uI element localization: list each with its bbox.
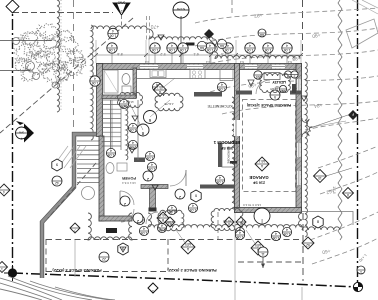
driveway parallelogram NE bbox=[346, 19, 378, 48]
dark block east inner bbox=[292, 84, 296, 93]
leader lines interior bbox=[150, 100, 170, 117]
topo contours SE bbox=[310, 212, 378, 240]
setback dashed east upper bbox=[302, 0, 304, 56]
svg-text:A5.1: A5.1 bbox=[258, 159, 265, 163]
hexagons bbox=[191, 190, 201, 202]
svg-text:1.06: 1.06 bbox=[247, 48, 254, 52]
diamond 7 stair bbox=[70, 223, 80, 233]
svg-text:1.05: 1.05 bbox=[147, 156, 154, 160]
diamond west edge low bbox=[0, 262, 8, 273]
dashed sight line NW bbox=[0, 18, 133, 133]
west wall bbox=[97, 64, 103, 137]
garage south wall bbox=[235, 208, 302, 213]
section pennant 2 bbox=[113, 3, 130, 15]
parking dashed divider west bbox=[45, 239, 47, 272]
property line south bbox=[12, 273, 358, 287]
diamond 10 bbox=[314, 170, 327, 183]
svg-text:1.06: 1.06 bbox=[109, 48, 116, 52]
parking dashed divider 1 bbox=[167, 239, 169, 270]
revision cloud stair strip bbox=[126, 105, 128, 160]
window tags row bbox=[107, 43, 117, 53]
door arc bedroom bbox=[170, 170, 186, 186]
circle 2 markers bbox=[120, 196, 130, 207]
svg-text:1.06: 1.06 bbox=[207, 48, 214, 52]
bath wall horizontal bbox=[102, 95, 136, 99]
pennant stem bbox=[121, 15, 123, 28]
svg-text:4: 4 bbox=[171, 43, 173, 47]
svg-text:1.05: 1.05 bbox=[219, 87, 226, 91]
svg-text:B: B bbox=[162, 218, 164, 222]
svg-text:4: 4 bbox=[94, 76, 96, 80]
svg-text:FOYER: FOYER bbox=[122, 176, 136, 181]
svg-text:5'-2: 5'-2 bbox=[160, 52, 165, 56]
svg-text:+70: +70 bbox=[151, 23, 160, 29]
property line east bbox=[357, 0, 359, 287]
svg-text:4: 4 bbox=[221, 82, 223, 86]
svg-text:1: 1 bbox=[152, 289, 154, 293]
svg-text:1.06: 1.06 bbox=[180, 48, 187, 52]
svg-text:KITCHENETTE: KITCHENETTE bbox=[207, 104, 233, 108]
svg-text:GARAGE: GARAGE bbox=[249, 175, 268, 180]
svg-text:4: 4 bbox=[275, 231, 277, 235]
svg-text:4: 4 bbox=[3, 190, 5, 194]
ramp hatch bbox=[52, 146, 68, 168]
svg-text:6'-1: 6'-1 bbox=[193, 52, 198, 56]
svg-text:4: 4 bbox=[171, 205, 173, 209]
circle 42 bbox=[52, 176, 62, 186]
retaining wall bbox=[42, 134, 96, 278]
svg-text:62: 62 bbox=[306, 243, 310, 247]
fridge bbox=[220, 70, 233, 81]
dashed vertical x73 bbox=[73, 0, 75, 128]
west wall lower bbox=[99, 136, 104, 221]
road edges SW bbox=[0, 278, 62, 300]
svg-text:216 SF: 216 SF bbox=[252, 181, 265, 185]
svg-text:4: 4 bbox=[112, 29, 114, 33]
window openings north bbox=[140, 65, 158, 69]
svg-text:4: 4 bbox=[286, 43, 288, 47]
stair markers bbox=[132, 116, 138, 121]
svg-text:I: I bbox=[261, 217, 262, 223]
svg-text:5/-PW: 5/-PW bbox=[177, 7, 186, 11]
svg-text:10: 10 bbox=[318, 176, 322, 180]
svg-text:4: 4 bbox=[149, 151, 151, 155]
diamond NW corner bbox=[6, 0, 19, 13]
fence line east bbox=[338, 0, 342, 240]
revision cloud north band bbox=[91, 26, 300, 59]
interior stair bbox=[102, 99, 122, 101]
svg-text:1.06: 1.06 bbox=[169, 48, 176, 52]
svg-text:4: 4 bbox=[286, 227, 288, 231]
diamonds 6 bbox=[224, 217, 234, 227]
revision cloud east wall bbox=[305, 62, 307, 237]
svg-text:1.05: 1.05 bbox=[130, 128, 137, 132]
svg-text:4: 4 bbox=[249, 43, 251, 47]
svg-text:A5.1: A5.1 bbox=[184, 242, 191, 246]
svg-text:8-4: 8-4 bbox=[288, 60, 292, 64]
svg-text:8A: 8A bbox=[219, 44, 224, 48]
shrubs bbox=[26, 62, 35, 71]
bath SW fixtures bbox=[82, 187, 95, 200]
foyer T wall stem bbox=[150, 188, 156, 211]
corner diagonals NE bbox=[352, 0, 378, 14]
tag 1.06 west bbox=[90, 76, 100, 86]
revision cloud south band bbox=[148, 213, 302, 227]
svg-text:4: 4 bbox=[227, 43, 229, 47]
svg-text:A5.1: A5.1 bbox=[156, 85, 163, 89]
black bar north band bbox=[186, 43, 195, 46]
driveway edge lines bbox=[74, 240, 76, 277]
revision cloud west wall bbox=[91, 25, 93, 140]
patio dark pad bbox=[106, 228, 117, 233]
interior fixture cloud c bbox=[260, 73, 291, 92]
bath south wall bbox=[99, 216, 132, 221]
svg-text:1: 1 bbox=[1, 267, 3, 271]
svg-text:4: 4 bbox=[143, 226, 145, 230]
dotted line beside cloud bbox=[60, 0, 62, 112]
tag circle 5 garage bbox=[270, 90, 280, 100]
interior fixture cloud a bbox=[118, 93, 143, 108]
bath fixtures NW bbox=[104, 70, 118, 93]
door opening garage west bbox=[234, 120, 240, 136]
svg-text:4: 4 bbox=[182, 43, 184, 47]
revision cloud bump east bbox=[302, 118, 313, 137]
black diamond keynote 1 bbox=[148, 283, 158, 293]
dim line top bbox=[96, 54, 302, 56]
section marker west bbox=[16, 121, 35, 143]
svg-text:1.05: 1.05 bbox=[217, 180, 224, 184]
revision cloud SE extension bbox=[302, 227, 340, 230]
topo contours NE bbox=[195, 8, 378, 23]
svg-text:11: 11 bbox=[261, 252, 265, 256]
svg-text:16.8 X 70 4.0: 16.8 X 70 4.0 bbox=[243, 203, 261, 207]
diamond 8 bbox=[343, 188, 354, 199]
svg-text:A5.1: A5.1 bbox=[159, 213, 166, 217]
dashed stem x149 bbox=[149, 16, 151, 40]
svg-text:1.05: 1.05 bbox=[190, 208, 197, 212]
survey monument SE bbox=[353, 282, 362, 291]
survey monument SW bbox=[4, 265, 21, 281]
svg-text:4: 4 bbox=[267, 43, 269, 47]
svg-text:8: 8 bbox=[347, 193, 349, 197]
svg-text:4: 4 bbox=[154, 43, 156, 47]
svg-text:1.06: 1.06 bbox=[265, 48, 272, 52]
interior fixture cloud b bbox=[155, 93, 183, 111]
svg-text:1.06: 1.06 bbox=[225, 48, 232, 52]
circle I garage door bbox=[254, 208, 270, 224]
svg-text:5: 5 bbox=[274, 95, 276, 99]
svg-text:BEDROOM 1: BEDROOM 1 bbox=[213, 140, 240, 145]
garage west wall bbox=[235, 64, 240, 213]
tag under cloud bbox=[108, 28, 118, 38]
svg-text:1.05: 1.05 bbox=[108, 153, 115, 157]
small triangles (fixtures) bbox=[158, 35, 164, 40]
svg-text:4: 4 bbox=[132, 140, 134, 144]
svg-text:4: 4 bbox=[110, 148, 112, 152]
svg-text:8-4: 8-4 bbox=[240, 60, 244, 64]
parking dashed boundary west diagonal bbox=[48, 163, 96, 218]
svg-text:5/W2: 5/W2 bbox=[118, 1, 126, 5]
east wall bbox=[296, 64, 302, 211]
svg-text:PARKING SPACE 2 (9X22): PARKING SPACE 2 (9X22) bbox=[167, 268, 217, 273]
svg-text:4: 4 bbox=[209, 43, 211, 47]
walk edge SE bbox=[302, 212, 353, 226]
door arc utility bbox=[256, 80, 270, 94]
utility wall stub west bbox=[236, 91, 252, 95]
circle 6 bbox=[144, 111, 157, 124]
utility wall stub east bbox=[290, 91, 301, 95]
svg-text:1.05: 1.05 bbox=[141, 231, 148, 235]
parking dashed top bbox=[46, 239, 303, 241]
bath wall vertical bbox=[133, 68, 137, 98]
dashed stem x232 bbox=[231, 0, 233, 15]
svg-text:PARKING SPACE 3 (9X22): PARKING SPACE 3 (9X22) bbox=[52, 268, 102, 273]
stair wall tags bbox=[128, 123, 137, 132]
svg-text:8A W8: 8A W8 bbox=[270, 87, 278, 91]
svg-text:4: 4 bbox=[111, 43, 113, 47]
foyer T wall horizontal bbox=[141, 185, 168, 189]
north wall bbox=[97, 64, 302, 70]
black diamond F bbox=[348, 110, 358, 120]
diamonds A5.1 bbox=[154, 84, 167, 97]
svg-text:6A: 6A bbox=[199, 46, 204, 50]
svg-text:UTILITY: UTILITY bbox=[272, 80, 286, 84]
extension lines bbox=[95, 40, 97, 63]
svg-text:4: 4 bbox=[219, 175, 221, 179]
filled diamond north bbox=[204, 29, 214, 39]
svg-text:PARKING SPACE 1(9X18): PARKING SPACE 1(9X18) bbox=[246, 103, 291, 107]
svg-text:4: 4 bbox=[239, 230, 241, 234]
svg-text:A5.1: A5.1 bbox=[254, 243, 261, 247]
svg-text:22: 22 bbox=[102, 257, 106, 261]
stair side wall line bbox=[137, 100, 139, 160]
svg-text:10.1 X 6.4: 10.1 X 6.4 bbox=[122, 181, 136, 185]
circle 11 arrow bbox=[258, 247, 268, 257]
diamond 62 bbox=[302, 237, 314, 249]
kitchen counter bbox=[137, 78, 235, 80]
circle 8 bbox=[137, 124, 149, 136]
svg-text:8'-6: 8'-6 bbox=[117, 52, 122, 56]
parking dashed south 2 bbox=[238, 261, 303, 263]
revision cloud patio bbox=[88, 213, 132, 240]
foyer north wall bbox=[134, 158, 145, 163]
svg-text:1.06: 1.06 bbox=[152, 48, 159, 52]
svg-text:14'-0: 14'-0 bbox=[332, 186, 336, 194]
svg-text:8A: 8A bbox=[259, 33, 264, 37]
svg-text:1.06: 1.06 bbox=[92, 81, 99, 85]
revision cloud garage west bbox=[232, 97, 235, 208]
svg-text:4: 4 bbox=[192, 203, 194, 207]
svg-text:2: 2 bbox=[121, 9, 123, 13]
svg-text:4: 4 bbox=[151, 162, 153, 166]
bump leader bbox=[312, 121, 346, 127]
svg-text:1.06: 1.06 bbox=[237, 235, 244, 239]
kitchen south wall bbox=[200, 185, 235, 189]
driveway dashed vert bbox=[217, 212, 219, 239]
diamond west 4 bbox=[0, 184, 10, 196]
wardrobe wall bbox=[218, 143, 222, 167]
svg-text:4: 4 bbox=[132, 123, 134, 127]
svg-text:J-4: J-4 bbox=[145, 60, 149, 64]
setback dashed east lower bbox=[302, 213, 304, 281]
interior fixture cloud d bbox=[158, 210, 184, 231]
dashed line top-left bbox=[13, 12, 113, 14]
tags parking2 top bbox=[235, 230, 244, 239]
svg-text:1.05: 1.05 bbox=[284, 232, 291, 236]
tree leaders bbox=[0, 40, 52, 42]
marker stem b bbox=[180, 18, 182, 63]
elev marker b bbox=[173, 2, 189, 19]
svg-text:308 SF: 308 SF bbox=[220, 146, 233, 150]
svg-text:1.06: 1.06 bbox=[273, 236, 280, 240]
svg-text:B1 W2: B1 W2 bbox=[167, 220, 175, 224]
interior fixture cloud e bbox=[211, 208, 243, 230]
garage stall dashed bbox=[243, 100, 296, 192]
utility water heater bbox=[264, 73, 280, 80]
svg-text:4: 4 bbox=[123, 99, 125, 103]
svg-text:1.05: 1.05 bbox=[149, 167, 156, 171]
kitchenette wall bbox=[194, 92, 222, 97]
door arcs foyer bbox=[120, 191, 134, 205]
wardrobe closet bbox=[222, 143, 237, 167]
interior tags bbox=[106, 148, 115, 157]
svg-text:J-4: J-4 bbox=[206, 60, 210, 64]
svg-text:b: b bbox=[180, 15, 182, 19]
svg-text:5/W: 5/W bbox=[19, 131, 24, 135]
dashed stem x146 bbox=[146, 16, 148, 40]
window openings east bbox=[297, 79, 300, 92]
revision cloud strip far west bbox=[57, 0, 59, 112]
parking dashed south 3 bbox=[46, 271, 168, 273]
svg-text:1.06: 1.06 bbox=[110, 34, 117, 38]
property line west bbox=[12, 0, 14, 272]
svg-text:7: 7 bbox=[74, 228, 76, 232]
tree canopy cluster NW bbox=[19, 30, 58, 58]
svg-text:1: 1 bbox=[360, 270, 362, 274]
hose bib triangle bbox=[248, 80, 254, 86]
range bbox=[190, 70, 205, 79]
sink bbox=[150, 70, 166, 78]
exterior stair treads bbox=[77, 140, 99, 142]
tag utility circles bbox=[284, 71, 291, 79]
svg-text:B1 W2: B1 W2 bbox=[223, 219, 231, 223]
svg-text:1.06: 1.06 bbox=[284, 48, 291, 52]
circle 1 SE bbox=[357, 266, 365, 274]
svg-text:42: 42 bbox=[55, 181, 59, 185]
svg-text:3: 3 bbox=[293, 75, 295, 79]
circle 22 bbox=[99, 252, 109, 262]
